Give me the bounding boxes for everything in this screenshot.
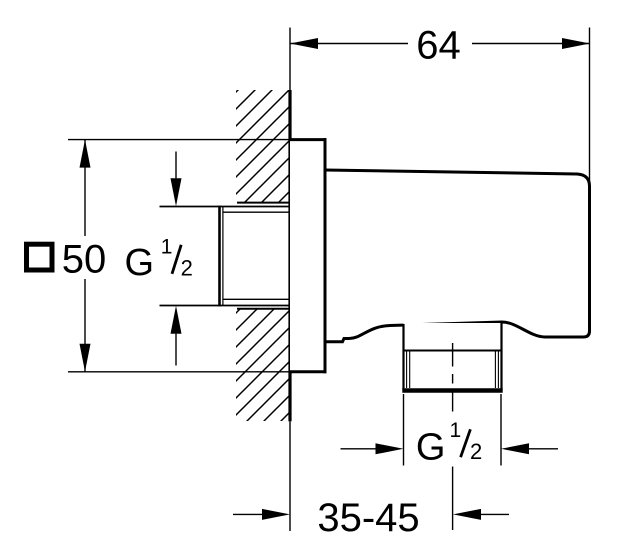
label G 1/2 bottom: fraction slash — [461, 429, 471, 457]
svg-text:50: 50 — [62, 237, 107, 281]
dim 35-45 arrow left line — [233, 513, 263, 515]
outlet G12 arrow left line — [341, 448, 378, 450]
dim 64 extension line right — [589, 28, 591, 185]
outlet left edge — [402, 324, 404, 390]
dim 64 arrowhead right — [562, 38, 590, 49]
outlet shoulder line — [404, 350, 502, 352]
inlet connector left edge — [218, 206, 221, 307]
wall face line thin upper — [289, 28, 291, 91]
dim 50 extension line top — [68, 139, 290, 141]
dim 35-45 arrow right line — [481, 513, 509, 515]
dim 64 arrowhead left — [290, 38, 318, 49]
dim 64 line left segment — [290, 43, 408, 45]
outlet right edge — [500, 322, 502, 390]
inlet connector thread root bottom — [223, 298, 290, 300]
outlet G12 extension line right — [500, 394, 502, 466]
svg-text:64: 64 — [416, 24, 461, 68]
wall hole edge bottom — [237, 308, 291, 310]
body outline — [325, 170, 590, 342]
svg-text:1: 1 — [161, 236, 173, 259]
svg-text:2: 2 — [470, 439, 482, 464]
dim 50 extension line bottom — [68, 371, 290, 373]
inner G12 arrow top line — [175, 152, 177, 181]
dim 50 arrowhead bottom — [80, 344, 91, 372]
outlet thread relief left — [406, 351, 408, 389]
outlet G12 extension line left — [403, 394, 405, 466]
outlet boss fill — [404, 323, 502, 390]
inlet connector thread root top — [223, 211, 290, 213]
dim 35-45 arrowhead right (points left at center line) — [453, 509, 481, 520]
dim 50 arrowhead top — [80, 140, 91, 168]
inlet connector bottom edge — [160, 305, 291, 307]
label G 1/2 left: fraction slash — [172, 245, 181, 274]
dim 50 line lower segment — [84, 279, 86, 372]
flange right edge — [324, 138, 327, 373]
wall hatching lower — [236, 309, 289, 421]
inner G12 arrowhead top (points down) — [171, 178, 182, 206]
inner G12 arrow bottom line — [175, 334, 177, 366]
inlet connector thread relief vertical — [222, 207, 224, 306]
flange bottom edge — [289, 370, 327, 373]
wall face line thin lower — [289, 421, 291, 531]
dim 64 line right segment — [472, 43, 590, 45]
wall hatching upper — [236, 90, 289, 203]
wall hole edge top — [237, 202, 291, 204]
inlet connector body fill — [219, 207, 290, 306]
svg-text:2: 2 — [181, 256, 193, 281]
wall face line thick — [288, 90, 291, 421]
dim 50 line upper segment — [84, 140, 86, 236]
outlet G12 arrowhead left (points right) — [376, 443, 404, 454]
inlet connector top edge — [160, 206, 291, 208]
outlet G12 arrowhead right (points left) — [501, 443, 529, 454]
svg-text:G: G — [416, 426, 446, 468]
outlet bottom bar — [402, 388, 502, 393]
outlet thread relief right — [494, 351, 496, 389]
flange top edge — [289, 138, 327, 141]
outlet G12 arrow right line — [528, 448, 558, 450]
body outline fill — [325, 170, 590, 342]
dim 35-45 arrowhead left (points right at wall) — [262, 509, 290, 520]
svg-text:G: G — [125, 242, 155, 284]
svg-text:35-45: 35-45 — [317, 496, 419, 540]
square symbol — [27, 244, 53, 270]
svg-text:1: 1 — [450, 419, 462, 442]
outlet center line — [452, 343, 454, 530]
flange fill — [290, 140, 325, 372]
inner G12 arrowhead bottom (points up) — [171, 306, 182, 334]
